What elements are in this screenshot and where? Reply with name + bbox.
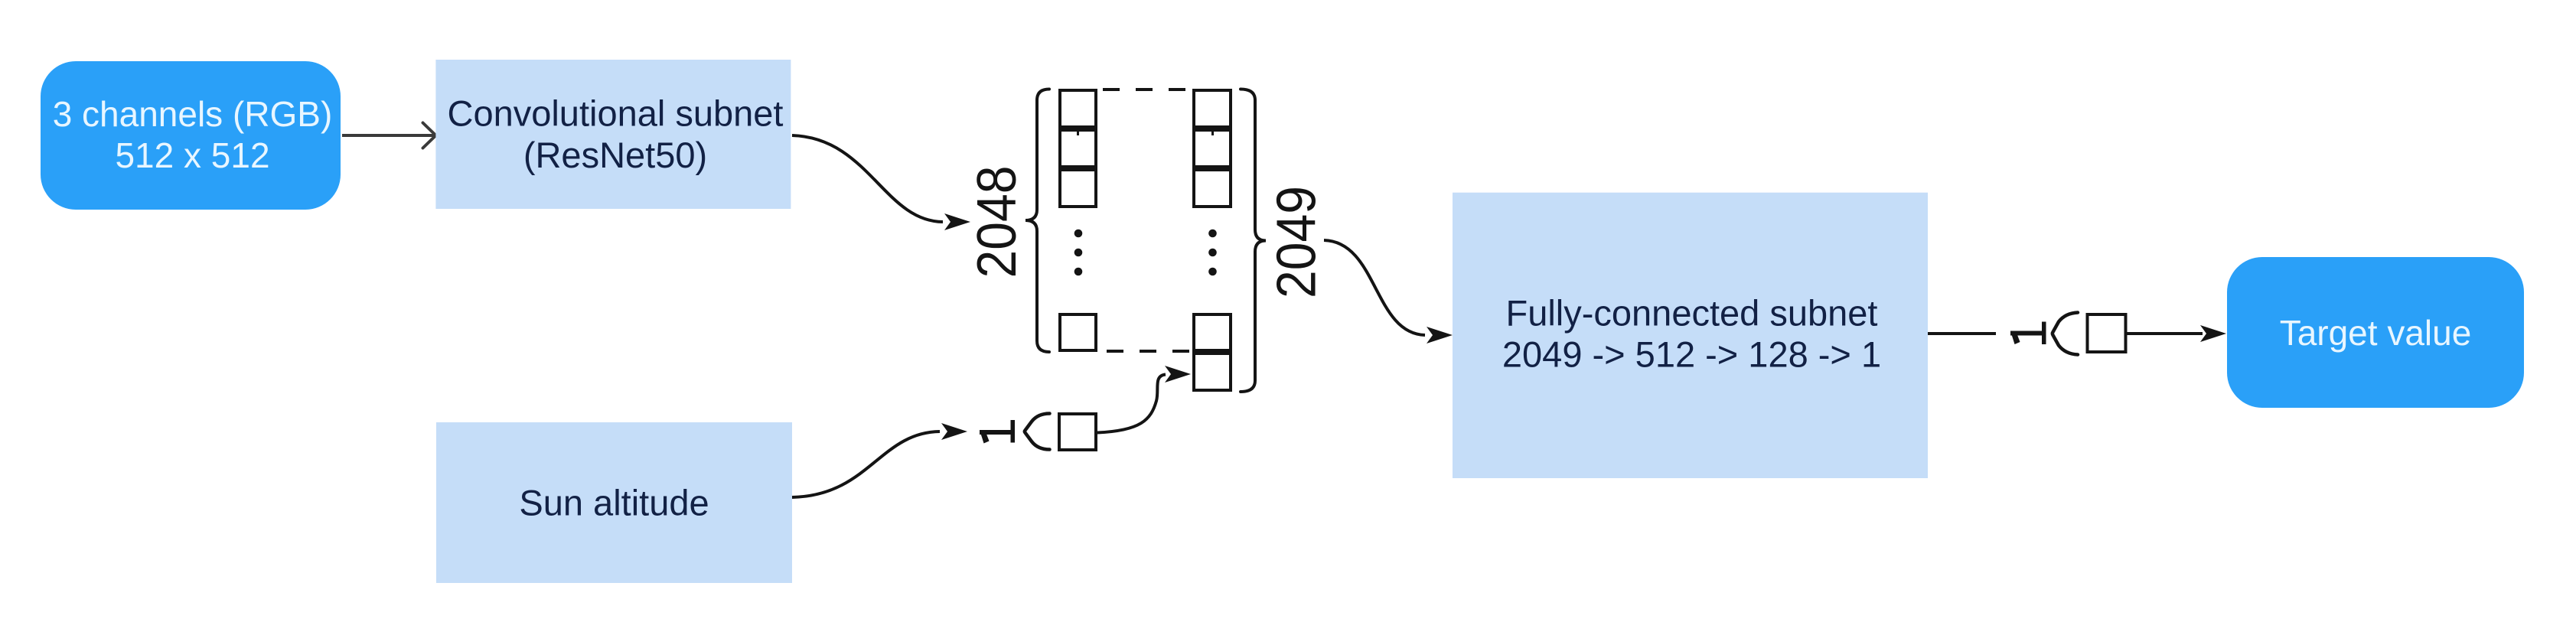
node: fully-connected subnet box — [1453, 193, 1928, 478]
dots: right column ellipsis — [1208, 230, 1217, 276]
wire: sun altitude to scalar (curved, solid arrow) — [792, 423, 967, 497]
svg-text:Fully-connected subnet: Fully-connected subnet — [1506, 293, 1878, 334]
label: 1 (rotated digit, output scalar) — [2010, 322, 2046, 345]
node: input image box (3 channels RGB 512x512) — [41, 61, 341, 210]
tick: right column separator mark — [1211, 129, 1214, 135]
svg-text:2048: 2048 — [967, 166, 1028, 278]
svg-text:Convolutional subnet: Convolutional subnet — [448, 93, 784, 134]
brace: small curly bracket (output scalar) — [2053, 313, 2078, 355]
svg-text:512 x 512: 512 x 512 — [115, 135, 269, 175]
svg-text:(ResNet50): (ResNet50) — [523, 135, 707, 175]
brace: small curly bracket (sun scalar) — [1025, 414, 1050, 450]
node: left column cell 3 — [1060, 170, 1096, 207]
svg-text:2049 -> 512 -> 128 -> 1: 2049 -> 512 -> 128 -> 1 — [1502, 334, 1881, 375]
node: right column bottom cell A — [1194, 314, 1231, 350]
wire: input to convolutional subnet (open arrow) — [342, 123, 436, 148]
node: right column bottom cell B (sun altitude slot) — [1194, 353, 1231, 390]
svg-text:Target value: Target value — [2280, 313, 2472, 353]
brace: left curly bracket of feature vector — [1026, 90, 1049, 353]
wire: fully-connected subnet to output scalar (plain line) — [1928, 332, 1996, 335]
node: sun scalar cell — [1059, 414, 1096, 450]
wire: convolutional subnet to feature vector (curved, solid arrow) — [792, 135, 970, 230]
node: right column cell 3 — [1194, 170, 1231, 207]
dots: left column ellipsis — [1074, 230, 1083, 276]
node: target value box — [2227, 257, 2524, 408]
svg-text:3 channels (RGB): 3 channels (RGB) — [53, 94, 333, 134]
node: left column cell 2 — [1060, 130, 1096, 167]
node: sun altitude box — [436, 422, 792, 583]
node: left column bottom cell — [1060, 314, 1096, 350]
node: output scalar cell — [2088, 314, 2126, 352]
node: right column cell 2 — [1194, 130, 1231, 167]
tick: left column separator mark — [1077, 129, 1079, 135]
wire: output scalar to target value (solid arrow) — [2128, 325, 2227, 342]
svg-text:2049: 2049 — [1267, 186, 1328, 298]
svg-text:Sun altitude: Sun altitude — [519, 483, 709, 523]
wire: sun scalar cell into concatenated vector (curved, solid arrow) — [1097, 366, 1191, 433]
brace: right curly bracket of concatenated vector — [1241, 90, 1266, 392]
node: left column cell 1 — [1060, 90, 1096, 127]
node: convolutional subnet box — [435, 60, 791, 209]
label: 1 (rotated digit, sun scalar) — [980, 420, 1015, 444]
wire: top dashed connector — [1099, 88, 1191, 91]
node: right column cell 1 — [1194, 90, 1231, 127]
wire: bottom dashed connector — [1099, 350, 1191, 353]
wire: 2049 vector to fully-connected subnet (curved, solid arrow) — [1324, 240, 1453, 344]
